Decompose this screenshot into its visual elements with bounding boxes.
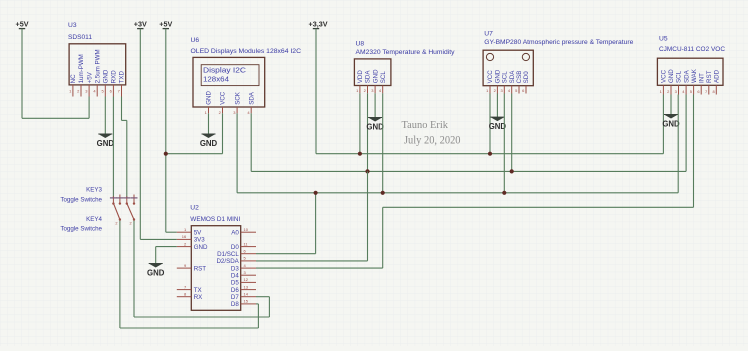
svg-text:D5: D5 <box>231 280 239 287</box>
svg-text:D7: D7 <box>231 294 239 301</box>
svg-text:3V3: 3V3 <box>194 237 206 244</box>
svg-text:D3: D3 <box>231 265 239 272</box>
switch KEY4 toggle switch <box>60 195 137 233</box>
power symbol +3,3V (sensor supply) <box>309 20 328 29</box>
svg-text:RX: RX <box>194 294 203 301</box>
svg-text:D8: D8 <box>231 301 239 308</box>
IC U7 GY-BMP280 sensor <box>483 31 633 94</box>
svg-text:RXD: RXD <box>111 70 118 84</box>
svg-text:SCL: SCL <box>380 71 387 84</box>
svg-text:CSB: CSB <box>516 71 523 84</box>
wire BMP280 SDA to SDA bus <box>511 94 513 172</box>
svg-text:SDA: SDA <box>365 70 372 84</box>
svg-text:TX: TX <box>194 287 202 294</box>
junction BMP280 SDA <box>510 169 514 173</box>
svg-text:WAK: WAK <box>691 68 698 83</box>
svg-text:GND: GND <box>372 69 379 83</box>
IC U5 CJMCU-811 sensor <box>657 35 725 94</box>
svg-text:2.5um PWM: 2.5um PWM <box>94 49 101 83</box>
wire SDS011 GND pin 5 down <box>104 97 106 135</box>
wire OLED SCK to SCL bus <box>236 113 238 193</box>
svg-text:U3: U3 <box>68 22 77 29</box>
svg-text:TXD: TXD <box>119 70 126 83</box>
ground SDS011 <box>97 134 115 148</box>
svg-text:SCK: SCK <box>234 91 241 105</box>
svg-text:INT: INT <box>698 73 705 83</box>
svg-text:GND: GND <box>97 139 115 148</box>
wire D7 to KEY4 <box>134 219 269 317</box>
svg-text:U7: U7 <box>484 31 493 38</box>
power symbol +5V (WEMOS 5V / OLED supply) <box>159 20 172 29</box>
svg-text:128x64: 128x64 <box>203 74 229 83</box>
svg-text:CJMCU-811 CO2 VOC: CJMCU-811 CO2 VOC <box>659 46 725 53</box>
IC U8 AM2320 sensor <box>354 41 455 94</box>
wire AM2320 SDA to SDA bus <box>367 93 369 171</box>
svg-text:SD0: SD0 <box>523 71 530 84</box>
svg-text:U6: U6 <box>191 37 200 44</box>
svg-text:Display I2C: Display I2C <box>203 66 246 75</box>
svg-text:+5V: +5V <box>16 20 29 29</box>
wire OLED VCC to +5V rail <box>166 113 223 153</box>
svg-text:15: 15 <box>244 299 249 304</box>
IC U3 SDS011 dust sensor <box>68 22 126 96</box>
junction +5V / OLED VCC <box>164 152 168 156</box>
junction AM2320 VDD <box>358 152 362 156</box>
wire OLED GND down <box>208 113 210 134</box>
text date <box>404 135 461 147</box>
svg-text:VCC: VCC <box>487 70 494 84</box>
power symbol +3V (WEMOS 3V3 supply) <box>134 20 147 29</box>
svg-text:July 20, 2020: July 20, 2020 <box>404 135 461 147</box>
svg-text:Toggle Switche: Toggle Switche <box>60 226 102 233</box>
svg-text:KEY3: KEY3 <box>86 186 102 193</box>
wire CJMCU VCC to +3.3V rail <box>662 95 664 154</box>
svg-text:GND: GND <box>662 119 680 128</box>
IC U6 OLED display module <box>191 37 302 115</box>
svg-text:GND: GND <box>366 122 384 131</box>
ground CJMCU-811 <box>662 115 680 129</box>
svg-text:VCC: VCC <box>661 69 668 83</box>
svg-text:GND: GND <box>206 91 213 105</box>
svg-text:AM2320 Temperature & Humidity: AM2320 Temperature & Humidity <box>356 49 456 56</box>
svg-text:SCL: SCL <box>502 71 509 84</box>
wire +3V riser to WEMOS 3V3 <box>140 29 177 240</box>
svg-text:+3V: +3V <box>134 20 147 29</box>
svg-text:VDD: VDD <box>357 70 364 84</box>
svg-text:GND: GND <box>668 69 675 83</box>
wire +5V to SDS011 pin 3 <box>22 29 89 119</box>
svg-text:WEMOS D1 MINI: WEMOS D1 MINI <box>190 216 240 223</box>
svg-text:Toggle Switche: Toggle Switche <box>60 196 102 203</box>
IC U2 WEMOS D1 MINI <box>177 205 256 311</box>
wire SDA bus <box>251 170 686 172</box>
svg-text:+5V: +5V <box>86 71 93 83</box>
wire D3/WAK net <box>383 206 694 208</box>
svg-text:16: 16 <box>182 234 187 239</box>
svg-text:SDA: SDA <box>509 70 516 84</box>
ground OLED <box>200 134 218 148</box>
wire +3.3V rail <box>316 153 663 155</box>
svg-text:RST: RST <box>194 265 207 272</box>
wire BMP280 GND down <box>496 94 498 118</box>
text author <box>402 119 449 131</box>
svg-text:GND: GND <box>147 268 165 277</box>
svg-text:SDA: SDA <box>248 91 255 105</box>
svg-text:SDA: SDA <box>683 69 690 83</box>
ground BMP280 <box>489 117 507 131</box>
wire WEMOS GND to ground <box>156 247 177 264</box>
wire CJMCU SCL to SCL bus <box>677 95 679 193</box>
junction AM2320 SCL <box>381 191 385 195</box>
wire D1/SCL to SCL bus <box>256 193 316 254</box>
junction SDA bus / AM2320 SDA / D2 <box>365 169 369 173</box>
svg-text:ADD: ADD <box>714 69 721 83</box>
svg-text:2: 2 <box>115 222 117 226</box>
svg-text:GY-BMP280 Atmospheric pressure: GY-BMP280 Atmospheric pressure & Tempera… <box>484 39 633 46</box>
svg-text:Tauno Erik: Tauno Erik <box>402 119 449 131</box>
wire D8 to KEY3 <box>120 219 259 328</box>
svg-text:D0: D0 <box>231 244 239 251</box>
svg-text:12: 12 <box>244 277 249 282</box>
ground WEMOS <box>147 264 165 278</box>
svg-text:10: 10 <box>244 227 249 232</box>
svg-text:14: 14 <box>244 292 249 297</box>
svg-text:GND: GND <box>194 244 208 251</box>
svg-text:KEY4: KEY4 <box>86 216 102 223</box>
junction BMP280 VCC <box>488 152 492 156</box>
svg-text:NC: NC <box>70 74 77 83</box>
svg-text:U2: U2 <box>190 205 199 212</box>
wire CJMCU GND down <box>670 95 672 115</box>
svg-text:SDS011: SDS011 <box>68 34 92 41</box>
svg-text:+3,3V: +3,3V <box>309 20 328 29</box>
wire AM2320 GND down <box>374 93 376 117</box>
wire AM2320 VDD to +3.3V rail <box>359 93 361 153</box>
svg-text:D4: D4 <box>231 272 239 279</box>
svg-text:A0: A0 <box>231 229 239 236</box>
power symbol +5V (SDS011 supply) <box>16 20 29 29</box>
wire D2/SDA to SDA bus <box>256 171 368 261</box>
svg-text:GND: GND <box>103 69 110 83</box>
junction BMP280 SCL <box>502 191 506 195</box>
svg-text:D6: D6 <box>231 287 239 294</box>
svg-text:GND: GND <box>200 139 218 148</box>
wire SCL bus <box>237 192 678 194</box>
wire CJMCU SDA to SDA bus <box>685 95 687 172</box>
wire CJMCU WAK to D3 net <box>693 95 695 208</box>
svg-text:SCL: SCL <box>676 70 683 83</box>
wire +5V riser to WEMOS 5V <box>166 29 177 233</box>
switch KEY3 toggle switch <box>60 186 123 225</box>
svg-text:5V: 5V <box>194 229 202 236</box>
wire +3.3V riser <box>315 29 317 154</box>
svg-text:U5: U5 <box>659 35 668 42</box>
wire BMP280 VCC to +3.3V rail <box>489 94 491 154</box>
wire SDS011 RXD pin 6 to KEY3 <box>112 97 114 198</box>
junction D1 SCL <box>314 191 318 195</box>
svg-text:RST: RST <box>706 70 713 83</box>
svg-text:VCC: VCC <box>220 91 227 105</box>
wire OLED SDA to SDA bus <box>250 113 252 171</box>
svg-text:1um-PWM: 1um-PWM <box>78 54 85 83</box>
ground AM2320 <box>366 118 384 132</box>
svg-text:U8: U8 <box>356 41 365 48</box>
svg-text:13: 13 <box>244 284 249 289</box>
wire D3 to WAK net <box>256 207 383 268</box>
svg-text:+5V: +5V <box>159 20 172 29</box>
wire BMP280 SCL to SCL bus <box>503 94 505 193</box>
wire AM2320 SCL to SCL bus <box>382 93 384 193</box>
svg-text:D2/SDA: D2/SDA <box>216 258 239 265</box>
wire SDS011 TXD pin 7 to KEY4 <box>122 97 127 198</box>
svg-text:2: 2 <box>130 222 132 226</box>
svg-text:D1/SCL: D1/SCL <box>217 251 239 258</box>
svg-text:OLED Displays Modules 128x64 I: OLED Displays Modules 128x64 I2C <box>191 48 302 55</box>
